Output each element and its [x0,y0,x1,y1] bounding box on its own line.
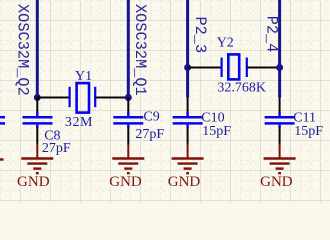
junction at node P2_3 [184,64,191,71]
wire C8 to ground [36,127,38,145]
net P2_4 vertical wire [278,0,281,98]
svg-text:15pF: 15pF [294,124,323,139]
svg-text:GND: GND [109,174,142,190]
ground GND (under C9) [112,144,144,174]
wire C11 to ground [279,127,281,145]
junction at node P2_4 [276,64,283,71]
svg-text:Y1: Y1 [75,69,92,84]
wire Y2 pin 2 to junction D [247,67,280,69]
wire junction A down to C8 [36,98,38,113]
wire junction A to Y1 pin 1 [37,97,69,99]
capacitor C11 [265,112,295,128]
net XOSC32M_Q1 vertical wire [127,0,130,98]
ground GND (under C8) [21,144,53,174]
wire junction B down to C9 [127,98,129,113]
junction at node XOSC32M_Q2 [34,94,41,101]
svg-text:P2_3: P2_3 [191,17,209,54]
svg-text:C9: C9 [143,110,159,125]
svg-text:XOSC32M_Q2: XOSC32M_Q2 [13,4,31,96]
crystal Y1 [70,83,96,113]
wire node P2_4 down to C11 [279,98,281,113]
svg-text:GND: GND [260,174,293,190]
svg-text:GND: GND [17,174,50,190]
wire node P2_3 down to C10 [187,98,189,113]
net P2_3 vertical wire [186,0,189,98]
capacitor C8 [23,112,53,128]
capacitor C10 [173,112,203,128]
svg-text:GND: GND [168,174,201,190]
svg-text:32.768K: 32.768K [217,81,266,96]
svg-text:27pF: 27pF [42,141,71,156]
edge fragment: neighbour ground bar (left edge) [0,158,4,160]
svg-text:15pF: 15pF [202,124,231,139]
junction at node XOSC32M_Q1 [125,94,132,101]
wire junction C to Y2 pin 1 [188,67,221,69]
svg-text:P2_4: P2_4 [262,16,280,53]
wire Y1 pin 2 to junction B [95,97,128,99]
svg-text:Y2: Y2 [217,35,234,50]
capacitor C9 [113,112,143,128]
ground GND (under C11) [264,144,296,174]
wire C10 to ground [187,127,189,145]
wire C9 to ground [127,127,129,145]
ground GND (under C10) [172,144,204,174]
edge fragment: neighbour capacitor plates (left edge) [0,117,5,123]
svg-text:27pF: 27pF [135,127,164,142]
crystal Y2 [222,54,247,79]
svg-text:XOSC32M_Q1: XOSC32M_Q1 [131,4,149,96]
net XOSC32M_Q2 vertical wire [36,0,39,98]
svg-text:32M: 32M [65,115,93,130]
